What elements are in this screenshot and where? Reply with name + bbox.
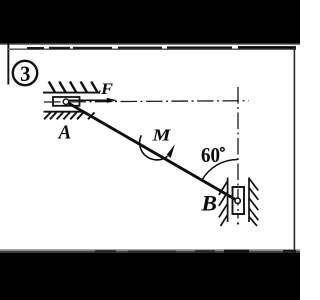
support A: lower guide line xyxy=(44,111,86,113)
svg-text:B: B xyxy=(200,191,217,216)
top black scan band xyxy=(0,0,300,44)
bottom black scan band xyxy=(0,249,300,251)
svg-text:F: F xyxy=(100,81,113,98)
vertical dash-dot centerline through B xyxy=(237,87,239,219)
tick before F xyxy=(99,90,100,94)
support A: lower hatching xyxy=(44,112,94,119)
moment M arrowhead xyxy=(167,144,175,158)
circled problem number 3 xyxy=(13,61,37,85)
slider block B xyxy=(233,187,245,214)
slider block A xyxy=(53,97,80,106)
pin B xyxy=(235,198,240,203)
support B: right guide line xyxy=(248,177,250,222)
support B: left hatching xyxy=(219,181,228,226)
svg-text:M: M xyxy=(152,126,172,145)
moment M arc xyxy=(140,135,168,160)
force F arrow xyxy=(69,99,110,101)
support B: right hatching xyxy=(249,178,258,226)
support B: left guide line xyxy=(227,178,229,223)
frame left line xyxy=(7,43,9,85)
svg-text:A: A xyxy=(57,121,71,143)
frame right line xyxy=(294,46,296,250)
support A: upper guide line xyxy=(43,92,99,94)
pin A xyxy=(63,99,69,105)
frame top line xyxy=(8,48,296,50)
svg-text:3: 3 xyxy=(20,61,30,86)
svg-text:60: 60 xyxy=(201,143,220,167)
angle arc 60 degrees xyxy=(202,160,238,181)
horizontal dash-dot centerline xyxy=(44,101,249,102)
rod AB xyxy=(66,102,238,201)
support A: upper hatching xyxy=(49,82,98,93)
